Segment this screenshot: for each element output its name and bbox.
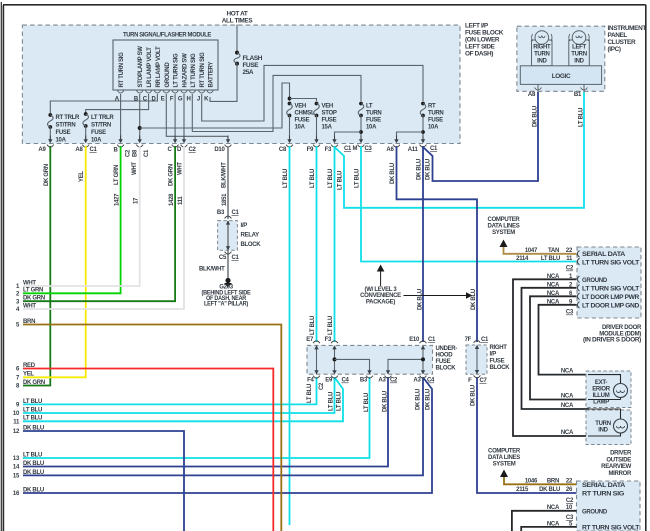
svg-text:LT TRLR: LT TRLR (91, 115, 114, 121)
svg-text:1047: 1047 (525, 248, 538, 254)
fuse block pin F9 (313, 136, 320, 148)
svg-text:16: 16 (13, 491, 20, 497)
svg-text:IND: IND (598, 428, 608, 434)
svg-text:LT TURN SIG: LT TURN SIG (191, 53, 197, 88)
svg-text:WHT: WHT (23, 303, 36, 309)
svg-text:LT BLU: LT BLU (541, 256, 560, 262)
wire A6: DK BLU to right I/P fuse block pin 7F (397, 146, 478, 342)
wire: right I/P F pin down, 2115 DK BLU to pin 26 (471, 377, 577, 493)
svg-text:10A: 10A (295, 125, 306, 131)
svg-text:ALL TIMES: ALL TIMES (222, 18, 254, 25)
svg-text:IND: IND (537, 59, 547, 65)
svg-text:M: M (353, 146, 358, 152)
svg-text:22: 22 (566, 248, 573, 254)
svg-text:LT BLU: LT BLU (23, 407, 42, 413)
node row 3 DK GRN (16, 296, 45, 306)
svg-text:DRIVER: DRIVER (610, 451, 632, 457)
svg-text:DK BLU: DK BLU (426, 389, 432, 410)
svg-text:LT TURN SIG: LT TURN SIG (174, 53, 180, 88)
svg-text:B1: B1 (574, 92, 582, 98)
svg-text:TURN: TURN (534, 52, 549, 58)
svg-text:FLASH: FLASH (243, 55, 263, 62)
svg-text:2114: 2114 (516, 256, 529, 262)
computer data lines system callout (upper) (488, 217, 521, 247)
svg-text:E: E (161, 97, 165, 103)
turn ind bulb (588, 409, 628, 436)
svg-text:DK GRN: DK GRN (44, 164, 50, 186)
under-hood fuse block (306, 337, 457, 390)
svg-text:TAN: TAN (548, 248, 559, 254)
svg-text:COMPUTER: COMPUTER (488, 449, 521, 455)
svg-text:E7: E7 (306, 337, 314, 343)
svg-text:LT BLU: LT BLU (283, 169, 289, 188)
svg-text:C2: C2 (125, 149, 131, 157)
svg-text:DK GRN: DK GRN (23, 380, 45, 386)
module pin G (178, 91, 187, 103)
node row 6 RED (16, 363, 36, 373)
svg-text:RT TURN SIG: RT TURN SIG (200, 52, 206, 88)
under-hood fuse block pin E9 (331, 370, 338, 378)
svg-text:LT BLU: LT BLU (364, 393, 370, 412)
fuse block pin B8 (136, 136, 143, 148)
wire NCA: DDM pin 1 GROUND to mirror turn ind (513, 274, 588, 436)
wire C: DK GRN to row 3 (23, 146, 175, 301)
svg-text:LT TURN SIG VOLT: LT TURN SIG VOLT (582, 286, 640, 292)
wire A3 branch C4: DK BLU to row 16 (23, 378, 432, 493)
wire: pin G down to edge pin D (183, 94, 185, 140)
wire: pin B down to block edge pin B8, junction at y128 (138, 94, 142, 140)
svg-text:13: 13 (13, 456, 20, 462)
svg-text:15: 15 (13, 474, 20, 480)
svg-text:C1: C1 (430, 146, 438, 152)
left I/P fuse block connector labels A9 A8 C1 B C2 B8 C1 C D C2 D10 C8 F9 F3 C1 M C3 A6 A11 C1 (38, 146, 438, 157)
svg-text:TURN: TURN (571, 52, 586, 58)
svg-text:FUSE: FUSE (243, 62, 260, 69)
node row 16 DK BLU (13, 487, 44, 497)
fuse block pin D10 (225, 136, 232, 148)
instrument panel cluster (IPC) (517, 25, 646, 91)
svg-text:COMPUTER: COMPUTER (488, 217, 521, 223)
svg-text:LT TURN SIG VOLT: LT TURN SIG VOLT (582, 260, 640, 266)
svg-text:BLOCK: BLOCK (436, 366, 457, 372)
I/P relay block pin C5 (225, 246, 232, 254)
svg-text:MIRROR: MIRROR (608, 471, 631, 477)
rotated labels below under-hood block (307, 384, 432, 412)
svg-text:A11: A11 (408, 147, 419, 153)
svg-text:BLK/WHT: BLK/WHT (222, 162, 228, 188)
flash fuse 25A (234, 51, 263, 76)
wire 2114 LT BLU labels (516, 256, 573, 262)
svg-text:22: 22 (566, 479, 573, 485)
svg-text:ST/TRN: ST/TRN (91, 123, 111, 129)
svg-text:RELAY: RELAY (241, 233, 260, 239)
fuse block pin F3 (331, 136, 338, 148)
svg-text:PACKAGE): PACKAGE) (366, 299, 395, 305)
svg-text:2115: 2115 (516, 487, 529, 493)
svg-text:LT GRN: LT GRN (114, 165, 120, 185)
svg-text:MODULE (DDM): MODULE (DDM) (599, 331, 641, 337)
svg-text:BRN: BRN (547, 479, 559, 485)
svg-text:DK BLU: DK BLU (417, 159, 423, 180)
svg-text:DK BLU: DK BLU (418, 289, 424, 310)
svg-text:ST/TRN: ST/TRN (56, 123, 76, 129)
svg-text:C4: C4 (427, 378, 435, 384)
svg-text:INSTRUMENT: INSTRUMENT (608, 25, 647, 32)
module pin B (134, 91, 143, 103)
wire: pin F down to edge pin C (174, 94, 176, 140)
svg-text:F4: F4 (307, 378, 314, 384)
svg-text:C1: C1 (90, 147, 98, 153)
wire: pin A down to block edge pin B (120, 94, 122, 140)
svg-text:WHT: WHT (132, 162, 138, 175)
svg-text:OF DASH): OF DASH) (465, 51, 493, 58)
I/P relay block (217, 210, 261, 261)
node row 10 LT BLU (13, 407, 42, 417)
svg-text:1428: 1428 (169, 193, 175, 206)
svg-text:DK BLU: DK BLU (23, 461, 44, 467)
wire E9 branch C4: LT BLU to row 11 (23, 378, 343, 421)
row 6 RED long wire (23, 369, 273, 531)
svg-text:H: H (186, 97, 190, 103)
fuse RT TURN 10A (397, 102, 444, 140)
module pin D (152, 91, 161, 103)
svg-text:FUSE: FUSE (428, 118, 443, 124)
svg-text:LT BLU: LT BLU (328, 316, 334, 335)
svg-text:LT BLU: LT BLU (307, 384, 313, 403)
module pin F (170, 91, 178, 103)
svg-text:LEFT: LEFT (572, 45, 586, 51)
wire: pin J staircase to RT TURN fuse (202, 65, 423, 121)
svg-text:RT: RT (428, 104, 436, 110)
svg-text:C2: C2 (390, 378, 398, 384)
node row 2 LT GRN (16, 288, 43, 298)
svg-text:(ON LOWER: (ON LOWER (465, 37, 500, 44)
svg-text:TURN: TURN (595, 421, 610, 427)
svg-text:(W/ LEVEL 3: (W/ LEVEL 3 (365, 287, 398, 293)
wire relay block to G203: BLK/WHT (199, 250, 228, 279)
svg-text:A8: A8 (75, 147, 83, 153)
svg-text:SYSTEM: SYSTEM (492, 230, 515, 236)
svg-text:BATTERY: BATTERY (209, 62, 215, 88)
svg-text:E9: E9 (325, 378, 333, 384)
svg-text:LT BLU: LT BLU (328, 169, 334, 188)
svg-text:SERIAL DATA: SERIAL DATA (582, 483, 626, 489)
wire: pin D to RT TRLR fuse (50, 94, 157, 115)
svg-text:14: 14 (13, 465, 20, 471)
(W/ LEVEL 3 CONVENIENCE PACKAGE) callout (360, 265, 472, 306)
wire 1047 TAN serial data to DDM (504, 247, 577, 254)
wire NCA: lower module pin 5 RT TURN SIG VOLT (521, 521, 576, 531)
svg-text:DATA LINES: DATA LINES (488, 224, 520, 230)
svg-text:A6: A6 (386, 147, 394, 153)
svg-text:RIGHT: RIGHT (490, 345, 508, 351)
svg-text:LEFT "A" PILLAR): LEFT "A" PILLAR) (204, 302, 248, 308)
svg-text:LT BLU: LT BLU (337, 392, 343, 411)
wire: pin H staircase to LT TURN fuse (192, 75, 361, 131)
left I/P fuse block (dashed box, light blue fill) (22, 23, 503, 144)
node row 8 DK GRN (16, 380, 45, 390)
svg-text:111: 111 (178, 196, 184, 205)
svg-text:1046: 1046 (525, 479, 538, 485)
svg-text:RT TURN SIG VOLT: RT TURN SIG VOLT (582, 525, 640, 531)
svg-text:DK GRN: DK GRN (169, 164, 175, 186)
ground G203 (202, 278, 251, 308)
svg-text:A3: A3 (378, 378, 386, 384)
node row 1 WHT (16, 280, 36, 290)
right turn indicator bulb (532, 31, 553, 66)
under-hood fuse block pin A3 (385, 370, 392, 378)
wire A3 (C4): DK BLU to row 15 (23, 377, 423, 475)
wire: pin E (GROUND) to edge pin D10 (166, 94, 228, 140)
svg-text:RT TRLR: RT TRLR (56, 115, 81, 121)
svg-text:NCA: NCA (561, 394, 574, 400)
fuse LT TURN 10A (335, 102, 382, 140)
svg-text:C7: C7 (480, 378, 488, 384)
svg-text:BLOCK: BLOCK (490, 365, 511, 371)
IPC logic box (520, 66, 601, 85)
svg-text:LT BLU: LT BLU (310, 316, 316, 335)
rotated labels mid level (310, 289, 477, 335)
module pin J (197, 91, 205, 103)
svg-text:GROUND: GROUND (582, 278, 608, 284)
svg-text:A9: A9 (38, 147, 46, 153)
svg-text:WHT: WHT (178, 162, 184, 175)
svg-text:LT BLU: LT BLU (579, 108, 585, 127)
module pin E (161, 91, 170, 103)
svg-text:15A: 15A (322, 125, 333, 131)
svg-text:C3: C3 (566, 310, 574, 316)
wire NCA: lower module pin 10 GROUND (512, 505, 577, 531)
svg-text:C1: C1 (232, 255, 240, 261)
node row 9 LT BLU (16, 399, 42, 409)
node row 5 BRN (16, 319, 35, 329)
lower right module (passenger door) (566, 481, 640, 531)
svg-text:10: 10 (13, 411, 20, 417)
svg-text:ERIOR: ERIOR (592, 387, 610, 393)
svg-text:F3: F3 (325, 337, 332, 343)
turn signal / flasher module (113, 32, 218, 91)
svg-text:DRIVER DOOR: DRIVER DOOR (602, 325, 642, 331)
svg-text:7F: 7F (465, 337, 472, 343)
svg-text:FUSE: FUSE (366, 118, 381, 124)
svg-text:12: 12 (13, 429, 20, 435)
svg-text:DK BLU: DK BLU (426, 159, 432, 180)
svg-text:FUSE BLOCK: FUSE BLOCK (465, 30, 504, 37)
svg-text:11: 11 (566, 256, 573, 262)
svg-text:FUSE: FUSE (490, 358, 505, 364)
svg-text:TURN: TURN (366, 111, 381, 117)
svg-text:NCA: NCA (561, 430, 574, 436)
svg-text:11: 11 (13, 420, 20, 426)
right I/P fuse block pin F (474, 370, 481, 378)
wire A11: DK BLU to under-hood pin E10 (422, 146, 424, 342)
svg-text:LT BLU: LT BLU (355, 169, 361, 188)
svg-text:LT BLU: LT BLU (329, 392, 335, 411)
wire: pin C to LT TRLR fuse (86, 94, 149, 114)
svg-text:C8: C8 (279, 147, 287, 153)
node row 12 DK BLU (13, 425, 44, 435)
under-hood internal wiring (317, 346, 426, 374)
svg-text:DK BLU: DK BLU (539, 487, 560, 493)
svg-text:STOPLAMP SW: STOPLAMP SW (138, 46, 144, 88)
svg-text:EXT-: EXT- (595, 380, 607, 386)
wire F3 branch C1: LT BLU to IPC pin B1 (335, 92, 584, 208)
svg-text:GROUND: GROUND (582, 509, 608, 515)
under-hood fuse block pin A3b (420, 370, 427, 378)
svg-text:C2: C2 (566, 498, 574, 504)
svg-text:G: G (178, 97, 183, 103)
svg-text:VEH: VEH (295, 104, 306, 110)
svg-text:HAZARD SW: HAZARD SW (183, 53, 189, 88)
wire: pin B branch to VEH fuses (140, 83, 317, 128)
svg-text:LT: LT (366, 104, 373, 110)
under-hood fuse block pin F3 (331, 341, 338, 349)
svg-text:FUSE: FUSE (436, 359, 451, 365)
svg-text:FUSE: FUSE (56, 130, 71, 136)
svg-text:DK BLU: DK BLU (533, 106, 539, 127)
svg-text:TURN SIGNAL/FLASHER MODULE: TURN SIGNAL/FLASHER MODULE (123, 32, 212, 39)
wire NCA: DDM pin 6 LT DOOR LMP PWR to mirror lamp (530, 291, 588, 400)
svg-text:1851: 1851 (222, 193, 228, 206)
wire C8: LT BLU dead-ends at y525 (289, 146, 291, 525)
fuse block pin M (358, 136, 365, 148)
svg-text:J: J (197, 97, 200, 103)
I/P relay block pin B3 (225, 216, 232, 225)
svg-text:B3: B3 (360, 378, 368, 384)
svg-text:C1: C1 (481, 337, 489, 343)
wire A11 branch C1: DK BLU to IPC pin A8 (424, 92, 539, 181)
node row 11 LT BLU (13, 416, 42, 426)
svg-text:10A: 10A (91, 138, 102, 144)
fuse block pin A9 (47, 136, 54, 148)
svg-text:F9: F9 (307, 147, 314, 153)
svg-text:SERIAL DATA: SERIAL DATA (582, 252, 626, 258)
row 5 BRN long wire (23, 325, 281, 531)
svg-text:DK BLU: DK BLU (390, 163, 396, 184)
svg-text:LT BLU: LT BLU (338, 171, 344, 190)
svg-text:10A: 10A (56, 138, 67, 144)
svg-text:E10: E10 (409, 337, 420, 343)
wire: flash fuse to module pin K (BATTERY) (210, 64, 237, 102)
svg-text:CONVENIENCE: CONVENIENCE (360, 293, 401, 299)
fuse block pin D (181, 136, 188, 148)
wire A3: DK BLU to row 14 (23, 377, 388, 467)
svg-text:BLK/WHT: BLK/WHT (199, 267, 225, 273)
under-hood fuse block pin F4 (313, 370, 320, 378)
svg-text:LT BLU: LT BLU (23, 452, 42, 458)
right I/P fuse block pin 7F (474, 341, 481, 350)
svg-text:(IPC): (IPC) (608, 46, 621, 53)
left turn indicator bulb (569, 31, 590, 66)
svg-text:C1: C1 (232, 210, 240, 216)
HOT AT ALL TIMES feed (222, 11, 254, 52)
svg-text:D10: D10 (214, 147, 225, 153)
svg-text:B8: B8 (133, 149, 139, 157)
svg-text:(IN DRIVER S DOOR): (IN DRIVER S DOOR) (583, 338, 641, 344)
svg-text:LT DOOR LMP PWR: LT DOOR LMP PWR (582, 295, 640, 301)
svg-text:DK BLU: DK BLU (416, 389, 422, 410)
svg-text:17: 17 (134, 197, 140, 204)
fuse block pin C (172, 136, 179, 148)
wire B3: LT BLU to row 13 (23, 377, 370, 458)
under-hood fuse block pin E10 (420, 341, 427, 349)
row 12 DK BLU long wire (23, 431, 184, 531)
wire D: WHT to row 4 (23, 146, 184, 309)
wire NCA: DDM pin 2 LT TURN SIG VOLT to mirror turn ind (522, 282, 589, 409)
driver door module (DDM) (566, 247, 642, 344)
svg-text:RR LAMP VOLT: RR LAMP VOLT (156, 46, 162, 87)
svg-text:STOP: STOP (322, 111, 337, 117)
svg-text:LT BLU: LT BLU (23, 399, 42, 405)
svg-text:B3: B3 (217, 210, 225, 216)
svg-text:A3: A3 (413, 378, 421, 384)
DDM pin arcs (577, 251, 590, 531)
svg-text:FUSE: FUSE (295, 118, 310, 124)
computer data lines system callout (lower) (488, 449, 521, 478)
svg-text:LT DOOR LMP GND: LT DOOR LMP GND (582, 303, 640, 309)
wire M: LT BLU 2114 to DDM pin 11 (361, 146, 577, 262)
wire B: LT GRN to row 2 (23, 146, 121, 293)
fuse block pin B (117, 136, 124, 148)
module pin K (204, 91, 213, 103)
fuse block pin A6 (393, 136, 400, 148)
svg-text:DK BLU: DK BLU (23, 487, 44, 493)
node row 14 DK BLU (13, 461, 44, 471)
svg-text:RT TURN SIG: RT TURN SIG (119, 52, 125, 88)
under-hood fuse block pin E7 (313, 341, 320, 349)
svg-text:C2: C2 (319, 382, 325, 390)
svg-text:LOGIC: LOGIC (552, 73, 571, 80)
svg-text:C5: C5 (219, 255, 227, 261)
fuse LT TRLR ST/TRN 10A (83, 112, 114, 143)
svg-text:WHT: WHT (23, 280, 36, 286)
circuit number labels 1427 17 1428 111 1851 (115, 193, 228, 206)
svg-text:DK BLU: DK BLU (383, 391, 389, 412)
wire 2115 DK BLU labels (516, 487, 573, 493)
svg-text:FUSE: FUSE (91, 130, 106, 136)
svg-text:I/P: I/P (241, 223, 248, 229)
module pin H (186, 91, 195, 103)
wire F3: LT BLU to under-hood pin F3 (334, 146, 336, 342)
svg-text:F3: F3 (325, 147, 332, 153)
svg-text:CLUSTER: CLUSTER (608, 39, 636, 46)
wire A9: DK GRN to row 8 (23, 146, 50, 386)
fuse RT TRLR ST/TRN 10A (48, 113, 81, 143)
svg-text:LT BLU: LT BLU (23, 416, 42, 422)
svg-text:I/P: I/P (490, 352, 497, 358)
IPC pins A8 and B1 (528, 84, 588, 98)
svg-text:LR LAMP VOLT: LR LAMP VOLT (147, 47, 153, 88)
fuse block pin C8 (286, 136, 293, 148)
svg-text:C3: C3 (566, 515, 574, 521)
svg-text:LEFT SIDE: LEFT SIDE (465, 44, 496, 51)
svg-text:LAMP: LAMP (593, 400, 609, 406)
svg-text:BLOCK: BLOCK (241, 242, 262, 248)
under-hood fuse block pin B3 (366, 370, 373, 378)
fuse VEH STOP 15A (314, 102, 337, 140)
svg-text:SYSTEM: SYSTEM (493, 462, 516, 468)
module pin C (143, 91, 152, 103)
exterior illum lamp bulb (588, 375, 628, 400)
module pin A (115, 91, 124, 103)
svg-text:REARVIEW: REARVIEW (601, 464, 631, 470)
wire B8: WHT to row 1 (23, 146, 140, 286)
svg-text:TURN: TURN (428, 111, 443, 117)
svg-text:A8: A8 (528, 92, 536, 98)
node row 4 WHT (16, 303, 36, 313)
wire F4: LT BLU to row 9 (23, 377, 317, 404)
fuse block pin A8 (82, 136, 89, 148)
